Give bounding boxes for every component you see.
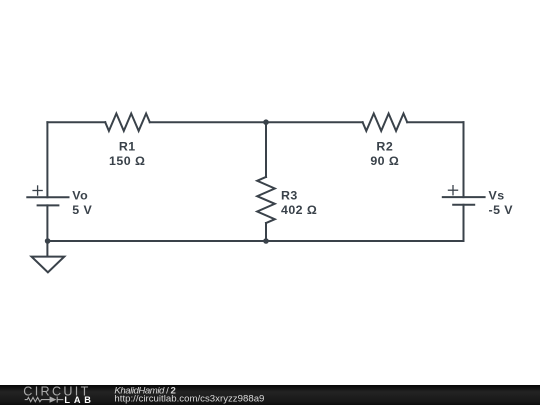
node junction dot B (263, 238, 269, 244)
wire left rail upper (46, 122, 48, 197)
V0 plus sign (32, 185, 42, 195)
footer bar (0, 385, 540, 405)
svg-text:402 Ω: 402 Ω (281, 203, 317, 217)
voltage source Vs plates (443, 196, 485, 198)
wire top-middle segment (150, 121, 363, 123)
resistor R1 (105, 114, 150, 131)
Vs plus sign (448, 185, 458, 195)
svg-text:5 V: 5 V (72, 203, 92, 217)
wire right rail lower (463, 205, 465, 241)
wire R3 upper lead (265, 122, 267, 177)
wire top-left segment (47, 121, 105, 123)
labels (72, 140, 513, 217)
svg-text:-5 V: -5 V (489, 203, 514, 217)
svg-text:90 Ω: 90 Ω (370, 154, 399, 168)
svg-text:R3: R3 (281, 188, 298, 202)
svg-text:http://circuitlab.com/cs3xryzz: http://circuitlab.com/cs3xryzz988a9 (114, 394, 264, 405)
wire top-right segment (407, 121, 463, 123)
svg-text:R2: R2 (376, 140, 393, 154)
wire R3 lower lead (265, 223, 267, 241)
wire bottom rail (47, 240, 463, 242)
ground (32, 257, 65, 273)
svg-text:Vs: Vs (489, 189, 505, 203)
svg-text:LAB: LAB (64, 395, 91, 405)
svg-text:150 Ω: 150 Ω (109, 154, 145, 168)
wire right rail upper (463, 122, 465, 197)
wire left rail lower (46, 205, 48, 256)
resistor R3 (257, 177, 275, 223)
logo resistor-diode glyph (25, 397, 64, 403)
voltage source V0 plates (27, 196, 68, 198)
svg-text:R1: R1 (119, 140, 136, 154)
svg-text:Vo: Vo (72, 188, 88, 202)
node junction dot C (45, 238, 51, 244)
resistor R2 (363, 114, 408, 131)
node junction dot A (263, 119, 269, 125)
